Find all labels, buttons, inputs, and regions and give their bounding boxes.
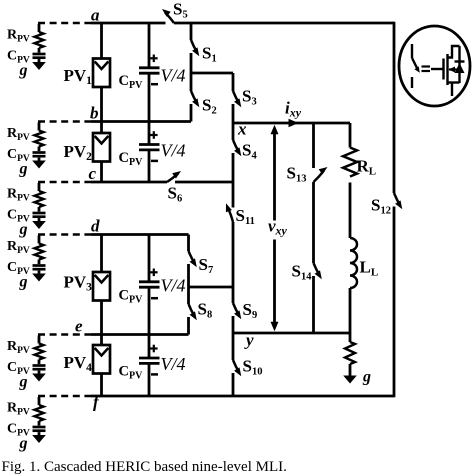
wire: S13-S14 bbox=[312, 182, 315, 263]
PV panel PV2 bbox=[93, 133, 110, 162]
switch S14 bbox=[314, 263, 320, 276]
wire: mid2-S8 bbox=[187, 287, 190, 304]
wire: PV1-b-PV2 bbox=[100, 87, 103, 133]
capacitor C_PV1 bbox=[139, 66, 160, 69]
wire: x-S4 bbox=[232, 123, 235, 140]
PV panel PV1 bbox=[93, 59, 110, 88]
wire: S7-mid2 bbox=[187, 264, 190, 287]
resistor R_PV (d) bbox=[35, 244, 44, 260]
ground g (b) bbox=[38, 158, 41, 162]
wire: branch lead node f bbox=[38, 397, 41, 405]
resistor R_PV (f) bbox=[35, 405, 44, 421]
resistor R_PV (a) bbox=[35, 32, 44, 48]
legend body diode bbox=[455, 63, 465, 73]
voltage arrow v_xy bbox=[273, 134, 276, 221]
legend MOSFET bbox=[442, 59, 444, 80]
wire: S8-e bbox=[187, 317, 190, 335]
svg-text:g: g bbox=[19, 161, 28, 178]
wire: node c rail left bbox=[91, 181, 167, 184]
wire: dashed stub node b bbox=[38, 120, 91, 123]
capacitor C_PV (e) bbox=[38, 360, 41, 365]
wire: y-Rg bbox=[349, 333, 352, 342]
wire: bottom rail (node f) bbox=[91, 395, 394, 398]
wire: S4-c bbox=[232, 153, 235, 182]
legend circle bbox=[399, 26, 470, 106]
switch S13 bbox=[314, 171, 325, 183]
wire: branch lead node c bbox=[38, 183, 41, 191]
wire: C2-c bbox=[148, 150, 151, 182]
wire: node d rail bbox=[91, 233, 189, 236]
PV panel PV4 bbox=[93, 345, 110, 374]
switch S2 bbox=[191, 91, 197, 104]
svg-text:g: g bbox=[19, 435, 28, 452]
inductor L_L bbox=[350, 238, 357, 288]
svg-text:x: x bbox=[237, 120, 247, 139]
wire: C1-b-C2 bbox=[148, 73, 151, 144]
switch S10 bbox=[233, 360, 239, 373]
switch S3 bbox=[233, 91, 239, 104]
resistor R_PV (b) bbox=[35, 131, 44, 147]
legend gate wire bbox=[431, 68, 444, 70]
ground g (a) bbox=[38, 59, 41, 63]
wire: mid rail cell 1 bbox=[191, 72, 233, 75]
wire: C3-e-C4 bbox=[148, 287, 151, 358]
capacitor C_PV3 bbox=[139, 280, 160, 283]
resistor R_PV (e) bbox=[35, 344, 44, 360]
wire: mid rail cell 2 bbox=[189, 286, 234, 289]
ground g (f) bbox=[38, 432, 41, 436]
capacitor C_PV2 bbox=[139, 143, 160, 146]
ground g (load) bbox=[349, 364, 352, 377]
wire: S10-f bbox=[232, 373, 235, 396]
resistor R_L bbox=[343, 148, 357, 177]
legend switch symbol bbox=[411, 44, 413, 58]
capacitor C_PV (a) bbox=[38, 48, 41, 53]
wire: d-S7 bbox=[187, 235, 190, 252]
ground g (d) bbox=[38, 271, 41, 275]
wire: node y rail bbox=[233, 332, 350, 335]
wire: dashed stub node d bbox=[38, 233, 91, 236]
svg-text:b: b bbox=[90, 104, 99, 123]
switch S1 bbox=[191, 40, 197, 53]
wire: mid1-S3 bbox=[232, 73, 235, 91]
PV panel PV3 bbox=[93, 272, 110, 301]
wire: node a rail right bbox=[174, 22, 394, 25]
wire: y-S10 bbox=[232, 333, 235, 360]
wire: right rail upper bbox=[393, 22, 396, 193]
wire: branch lead node a bbox=[38, 24, 41, 32]
svg-text:V/4: V/4 bbox=[161, 66, 186, 86]
wire: mid2-S9 bbox=[232, 287, 235, 303]
wire: x rail corner to RL bbox=[349, 123, 352, 148]
wire: cap column a-C1 bbox=[148, 23, 151, 68]
resistor (ground leg) bbox=[345, 342, 355, 364]
wire: node b rail bbox=[91, 120, 191, 123]
wire: LL-y bbox=[349, 288, 352, 333]
wire: dashed stub node f bbox=[38, 395, 91, 398]
svg-text:d: d bbox=[91, 217, 100, 236]
wire: right rail lower bbox=[393, 207, 396, 398]
capacitor C_PV (d) bbox=[38, 260, 41, 265]
switch S12 bbox=[394, 193, 400, 206]
capacitor C_PV4 bbox=[139, 357, 160, 360]
resistor R_PV (c) bbox=[35, 191, 44, 207]
wire: PV4-f bbox=[100, 373, 103, 396]
wire: dashed stub node a bbox=[38, 22, 91, 25]
wire: a-S1 bbox=[190, 23, 193, 40]
switch S11 bbox=[228, 209, 233, 223]
wire: c-S11 bbox=[232, 182, 235, 208]
wire: branch lead node d bbox=[38, 236, 41, 244]
svg-text:V/4: V/4 bbox=[161, 276, 186, 296]
wire: node e rail bbox=[91, 333, 189, 336]
svg-text:c: c bbox=[89, 164, 97, 183]
wire: cap column d-C3 bbox=[148, 235, 151, 282]
capacitor C_PV (c) bbox=[38, 207, 41, 212]
wire: node a rail left bbox=[91, 22, 166, 25]
wire: RL-LL bbox=[349, 183, 352, 239]
svg-text:y: y bbox=[244, 331, 254, 350]
svg-text:V/4: V/4 bbox=[161, 141, 186, 161]
svg-text:g: g bbox=[362, 369, 371, 386]
wire: branch lead node b bbox=[38, 123, 41, 131]
wire: S3-x bbox=[232, 104, 235, 123]
svg-text:g: g bbox=[19, 274, 28, 291]
switch S6 bbox=[167, 174, 178, 183]
capacitor C_PV (f) bbox=[38, 421, 41, 426]
wire: x-S13 bbox=[312, 123, 315, 168]
switch S5 bbox=[165, 13, 174, 24]
wire: branch lead node e bbox=[38, 336, 41, 344]
legend equals sign bbox=[422, 65, 431, 67]
wire: PV3-e-PV4 bbox=[100, 300, 103, 345]
wire: PV2-c bbox=[100, 161, 103, 182]
switch S4 bbox=[233, 140, 239, 153]
ground g (e) bbox=[38, 371, 41, 375]
svg-text:g: g bbox=[19, 374, 28, 391]
wire: PV column a-PV1 bbox=[100, 23, 103, 59]
svg-text:Fig. 1. Cascaded HERIC based n: Fig. 1. Cascaded HERIC based nine-level … bbox=[2, 459, 287, 475]
wire: node c rail right bbox=[175, 181, 233, 184]
wire: S1-mid-S2 bbox=[190, 53, 193, 91]
svg-text:e: e bbox=[75, 317, 83, 336]
svg-text:g: g bbox=[19, 62, 28, 79]
switch S7 bbox=[189, 251, 195, 264]
wire: S2-b bbox=[190, 104, 193, 122]
switch S8 bbox=[189, 304, 195, 317]
svg-text:g: g bbox=[19, 221, 28, 238]
wire: C4-f bbox=[148, 363, 151, 396]
svg-text:V/4: V/4 bbox=[161, 354, 186, 374]
wire: S9-y bbox=[232, 316, 235, 333]
wire: dashed stub node e bbox=[38, 333, 91, 336]
wire: node x rail bbox=[233, 122, 350, 125]
wire: S14-y bbox=[312, 276, 315, 333]
wire: d-PV3 bbox=[100, 235, 103, 273]
switch S9 bbox=[233, 303, 239, 316]
current arrow i_xy bbox=[289, 119, 299, 127]
ground g (c) bbox=[38, 218, 41, 222]
capacitor C_PV (b) bbox=[38, 147, 41, 152]
wire: dashed stub node c bbox=[38, 181, 91, 184]
wire: S11-mid2 bbox=[232, 222, 235, 287]
